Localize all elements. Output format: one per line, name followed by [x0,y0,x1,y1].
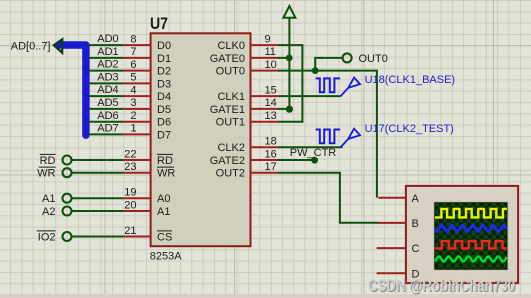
pin D0 (8) stub [123,33,171,52]
svg-text:AD5: AD5 [97,97,118,109]
pin OUT0 (10) stub [216,59,278,78]
wire CLK2 [278,146,343,148]
scope screen bezel [433,201,509,271]
terminal OUT0 [343,53,352,62]
pin WR (23) stub [123,161,175,180]
svg-text:AD1: AD1 [97,46,118,58]
terminal A2 [42,206,123,218]
pin D2 (6) stub [123,59,171,78]
svg-text:OUT2: OUT2 [216,168,245,180]
generator U18 flag [341,78,361,97]
bus entry arrow [54,39,63,53]
pin GATE0 (11) stub [210,46,278,65]
pin GATE2 (16) stub [210,148,278,167]
wire OUT0 terminal branch [315,58,342,71]
svg-text:A0: A0 [157,193,170,205]
svg-text:D0: D0 [157,40,171,52]
wire GATE1 [278,108,289,110]
svg-text:6: 6 [130,59,136,71]
svg-text:AD2: AD2 [97,59,118,71]
svg-text:23: 23 [124,161,136,173]
wire CLK1 [278,95,341,97]
terminal IO2 [37,231,124,244]
svg-text:15: 15 [265,84,277,96]
junction GATE1 [286,106,293,113]
svg-text:AD0: AD0 [97,33,118,45]
pin A1 (20) stub [123,199,170,218]
svg-text:U7: U7 [150,14,168,33]
svg-text:16: 16 [265,148,277,160]
svg-text:A2: A2 [42,206,55,218]
svg-text:AD7: AD7 [97,123,118,135]
svg-text:OUT0: OUT0 [216,66,245,78]
wire OUT0 [278,71,377,198]
svg-text:AD6: AD6 [97,110,118,122]
svg-text:RD: RD [157,155,173,167]
pin GATE1 (14) stub [210,97,278,116]
oscilloscope body [406,186,518,283]
wire AD4 [89,84,124,96]
svg-text:A1: A1 [42,193,55,205]
wire AD3 [89,72,124,84]
svg-text:A: A [412,193,420,205]
scope trace channel C red square [435,241,507,248]
svg-text:22: 22 [124,148,136,160]
wire AD6 [89,110,124,122]
svg-text:14: 14 [265,97,277,109]
svg-text:5: 5 [130,72,136,84]
svg-text:U18(CLK1_BASE): U18(CLK1_BASE) [365,74,456,86]
pin OUT2 (17) stub [216,161,278,180]
pin D1 (7) stub [123,46,171,65]
scope trace channel A yellow square [435,209,507,218]
pin CLK0 (9) stub [217,33,278,52]
svg-text:D6: D6 [157,117,171,129]
svg-text:D1: D1 [157,53,171,65]
svg-text:CLK0: CLK0 [217,40,245,52]
scope trace channel D green sine [435,256,507,261]
svg-text:B: B [412,218,419,230]
svg-text:8253A: 8253A [150,251,182,263]
pin CS (21) stub [123,225,172,244]
svg-text:20: 20 [124,199,136,211]
pin CLK2 (18) stub [217,136,278,155]
svg-text:D4: D4 [157,91,171,103]
svg-text:D2: D2 [157,66,171,78]
svg-text:A1: A1 [157,206,170,218]
chip U7 body [151,33,251,246]
svg-text:18: 18 [265,136,277,148]
scope pin D stub [377,268,420,280]
scope screen graticule checkerboard [435,203,507,269]
svg-text:WR: WR [37,168,55,180]
svg-text:3: 3 [130,97,136,109]
pin D6 (2) stub [123,110,171,129]
wire AD5 [89,97,124,109]
terminal A1 [42,193,123,205]
svg-text:CS: CS [157,232,172,244]
svg-text:7: 7 [130,46,136,58]
pin A0 (19) stub [123,187,170,206]
pin D7 (1) stub [123,123,171,142]
generator U17 flag [341,129,361,148]
svg-text:RD: RD [40,155,56,167]
svg-text:19: 19 [124,187,136,199]
pin RD (22) stub [123,148,173,167]
junction PW_CTR end dot [311,157,318,164]
wire GATE2 PW_CTR [278,159,315,161]
svg-text:GATE1: GATE1 [210,104,245,116]
wire AD1 [89,46,124,58]
scope pin A stub [378,193,419,205]
svg-text:AD[0..7]: AD[0..7] [11,40,51,52]
scope screen [434,202,507,269]
generator U18 square wave [316,78,341,92]
svg-text:2: 2 [130,110,136,122]
junction OUT0 branch [312,67,319,74]
svg-text:AD3: AD3 [97,72,118,84]
svg-text:8: 8 [130,33,136,45]
bus AD[0..7] [59,45,86,135]
pin D3 (5) stub [123,72,171,91]
svg-text:GATE0: GATE0 [210,53,245,65]
svg-text:C: C [412,243,420,255]
wire AD2 [89,59,124,71]
pin CLK1 (15) stub [217,84,278,103]
svg-text:OUT0: OUT0 [359,53,388,65]
svg-text:13: 13 [265,110,277,122]
svg-text:17: 17 [265,161,277,173]
svg-text:IO2: IO2 [38,231,56,243]
svg-text:D3: D3 [157,78,171,90]
pin OUT1 (13) stub [216,110,278,129]
svg-text:11: 11 [265,46,276,58]
wire AD7 [89,123,124,135]
svg-text:AD4: AD4 [97,84,118,96]
wire GATE0 [278,57,289,59]
svg-text:21: 21 [124,225,136,237]
svg-text:10: 10 [265,59,277,71]
svg-text:4: 4 [130,84,136,96]
wire CLK0 to OUT1 [278,45,302,122]
svg-text:CLK2: CLK2 [217,142,245,154]
svg-text:U17(CLK2_TEST): U17(CLK2_TEST) [365,123,454,135]
svg-text:CSDN @RobinChan730: CSDN @RobinChan730 [368,277,515,295]
junction GATE0 [286,55,293,62]
generator U17 square wave [316,130,341,144]
svg-text:1: 1 [130,123,136,135]
scope trace channel B blue triangle wave [435,225,507,232]
svg-text:OUT1: OUT1 [216,117,245,129]
svg-text:GATE2: GATE2 [210,155,245,167]
power terminal arrow [283,6,295,18]
wire OUT2 to scope B [278,173,378,223]
scope pin C stub [377,243,420,255]
wire AD0 [89,33,124,45]
svg-text:WR: WR [157,168,175,180]
terminal WR [37,167,123,180]
svg-text:D5: D5 [157,104,171,116]
svg-text:PW_CTR: PW_CTR [290,147,337,159]
svg-text:D7: D7 [157,129,171,141]
svg-text:CLK1: CLK1 [217,91,245,103]
terminal RD [40,154,124,167]
wire power stem [288,18,290,110]
svg-text:9: 9 [265,33,271,45]
watermark CSDN [368,277,516,296]
scope pin B stub [378,218,418,230]
pin D5 (3) stub [123,97,171,116]
pin D4 (4) stub [123,84,171,103]
